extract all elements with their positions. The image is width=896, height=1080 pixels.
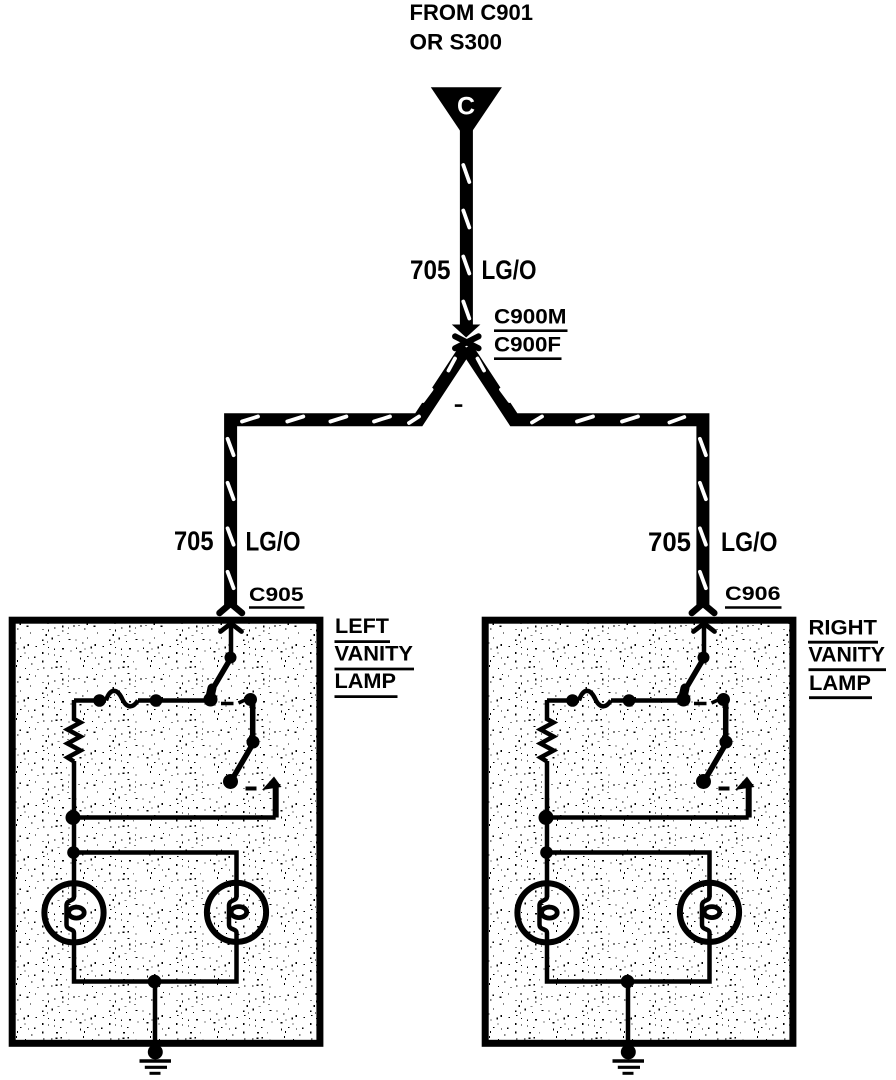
svg-text:705: 705 <box>174 526 214 556</box>
svg-text:705: 705 <box>410 255 451 285</box>
svg-text:LAMP: LAMP <box>335 670 397 693</box>
wire stripe dashes on branches <box>228 359 706 589</box>
svg-text:C906: C906 <box>725 583 781 605</box>
svg-text:VANITY: VANITY <box>809 644 886 667</box>
connector chevron C906 <box>692 604 715 614</box>
svg-text:LEFT: LEFT <box>335 615 389 638</box>
svg-text:C: C <box>457 93 475 121</box>
svg-text:RIGHT: RIGHT <box>809 617 878 640</box>
svg-text:LG/O: LG/O <box>482 255 537 285</box>
small tick mark <box>455 404 463 407</box>
svg-text:LG/O: LG/O <box>246 527 301 557</box>
connector chevron C905 <box>220 604 243 614</box>
svg-text:705: 705 <box>648 527 691 557</box>
svg-text:C905: C905 <box>249 584 304 606</box>
right vanity lamp assembly <box>485 620 793 1073</box>
connector X C900F <box>455 336 479 348</box>
wire 705 LG/O main feed <box>460 130 473 327</box>
wire branch to left lamp <box>231 348 467 606</box>
left vanity lamp assembly <box>12 620 320 1073</box>
svg-text:C900M: C900M <box>494 305 567 329</box>
svg-text:LG/O: LG/O <box>721 527 778 557</box>
wire branch to right lamp <box>466 348 703 606</box>
wire stripe dashes <box>463 165 469 319</box>
svg-text:LAMP: LAMP <box>809 672 871 695</box>
svg-text:OR S300: OR S300 <box>410 30 503 55</box>
connector arrow C900M <box>452 325 481 338</box>
connector triangle C <box>431 87 502 140</box>
svg-text:FROM C901: FROM C901 <box>410 0 534 25</box>
svg-text:C900F: C900F <box>494 333 561 357</box>
svg-text:VANITY: VANITY <box>335 643 414 666</box>
